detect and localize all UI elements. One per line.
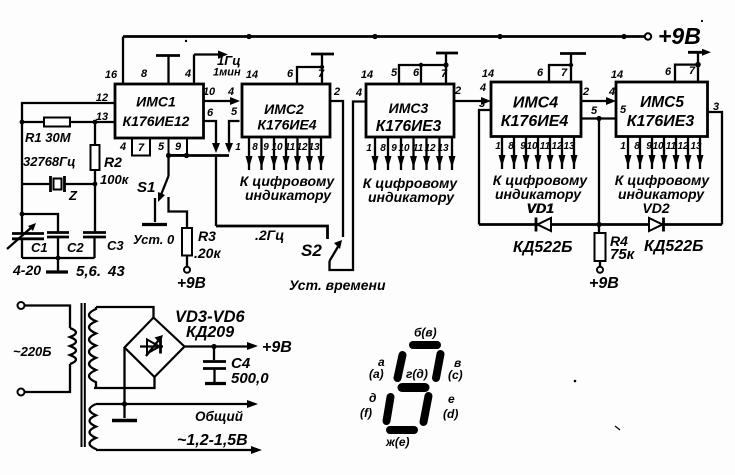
- svg-text:~1,2-1,5В: ~1,2-1,5В: [177, 432, 248, 449]
- svg-text:9: 9: [263, 142, 269, 153]
- svg-text:С3: С3: [107, 238, 124, 253]
- svg-text:500,0: 500,0: [231, 370, 269, 387]
- svg-text:+9В: +9В: [658, 23, 701, 49]
- svg-text:.2Гц: .2Гц: [255, 227, 284, 243]
- svg-text:К176ИЕ3: К176ИЕ3: [376, 118, 442, 135]
- svg-text:7: 7: [138, 142, 145, 154]
- svg-text:(d): (d): [443, 407, 458, 421]
- svg-text:VD2: VD2: [642, 200, 669, 216]
- svg-text:R3: R3: [198, 228, 216, 244]
- svg-text:12: 12: [96, 92, 108, 104]
- svg-text:г(д): г(д): [406, 367, 428, 381]
- svg-text:д: д: [369, 391, 376, 405]
- svg-text:9: 9: [391, 143, 397, 154]
- svg-text:5: 5: [620, 104, 627, 116]
- svg-text:1: 1: [620, 141, 626, 152]
- svg-text:8: 8: [380, 143, 386, 154]
- svg-text:К176ИЕ4: К176ИЕ4: [501, 113, 569, 130]
- svg-text:ИМС2: ИМС2: [264, 101, 304, 117]
- svg-text:13: 13: [96, 111, 108, 123]
- svg-text:4: 4: [355, 87, 362, 99]
- svg-text:14: 14: [246, 69, 258, 81]
- svg-text:R2: R2: [104, 154, 122, 170]
- svg-text:индикатору: индикатору: [368, 189, 455, 205]
- svg-text:14: 14: [611, 69, 623, 81]
- svg-text:К176ИЕ4: К176ИЕ4: [257, 117, 316, 133]
- svg-text:Уст. 0: Уст. 0: [133, 232, 175, 247]
- svg-text:е: е: [448, 392, 455, 406]
- svg-text:С1: С1: [31, 240, 48, 255]
- svg-text:1: 1: [366, 143, 372, 154]
- svg-text:10: 10: [652, 141, 664, 152]
- svg-text:10: 10: [526, 141, 538, 152]
- svg-text:4: 4: [119, 141, 126, 153]
- svg-text:ИМС1: ИМС1: [136, 94, 176, 110]
- svg-text:2: 2: [582, 86, 589, 98]
- svg-text:9: 9: [175, 141, 182, 153]
- svg-text:6: 6: [287, 68, 294, 80]
- svg-text:(а): (а): [369, 367, 384, 381]
- svg-text:4: 4: [608, 86, 615, 98]
- svg-text:2: 2: [333, 86, 340, 98]
- svg-text:ж(е): ж(е): [385, 435, 410, 449]
- svg-text:5: 5: [231, 106, 238, 118]
- svg-text:К176ИЕ3: К176ИЕ3: [627, 113, 695, 130]
- svg-text:С2: С2: [67, 240, 84, 255]
- svg-text:1мин: 1мин: [213, 67, 241, 79]
- svg-text:(f): (f): [360, 406, 372, 420]
- svg-text:8: 8: [252, 142, 258, 153]
- svg-text:7: 7: [441, 68, 448, 80]
- svg-text:К176ИЕ12: К176ИЕ12: [123, 113, 190, 129]
- svg-text:ИМС4: ИМС4: [513, 95, 558, 112]
- svg-text:индикатору: индикатору: [245, 187, 332, 203]
- svg-text:6: 6: [537, 67, 544, 79]
- svg-text:100к: 100к: [100, 172, 130, 187]
- svg-text:7: 7: [689, 65, 696, 77]
- svg-text:4: 4: [479, 82, 486, 94]
- svg-text:(с): (с): [448, 368, 463, 382]
- svg-text:2: 2: [454, 85, 461, 97]
- svg-text:+9В: +9В: [177, 275, 206, 292]
- svg-text:14: 14: [361, 69, 373, 81]
- svg-text:+9В: +9В: [589, 275, 619, 292]
- svg-text:Уст. времени: Уст. времени: [289, 277, 386, 293]
- svg-text:10: 10: [203, 86, 216, 98]
- svg-text:б(в): б(в): [414, 326, 437, 340]
- svg-text:7: 7: [318, 68, 325, 80]
- svg-text:4-20: 4-20: [12, 262, 41, 278]
- svg-text:R1 30М: R1 30М: [25, 130, 72, 145]
- svg-text:3: 3: [479, 98, 485, 110]
- svg-text:4: 4: [184, 68, 191, 80]
- svg-text:16: 16: [105, 69, 118, 81]
- svg-text:5,6.: 5,6.: [76, 263, 101, 280]
- svg-text:КД522Б: КД522Б: [513, 239, 572, 256]
- svg-text:~220Б: ~220Б: [13, 344, 52, 359]
- svg-text:3: 3: [713, 101, 719, 113]
- svg-text:5: 5: [391, 67, 398, 79]
- svg-text:VD1: VD1: [527, 200, 554, 216]
- svg-text:+9В: +9В: [262, 339, 292, 356]
- svg-text:6: 6: [207, 107, 214, 119]
- svg-text:5: 5: [591, 105, 598, 117]
- svg-text:Общий: Общий: [195, 409, 244, 424]
- svg-text:ИМС3: ИМС3: [389, 100, 429, 116]
- svg-text:32768Гц: 32768Гц: [23, 154, 76, 169]
- svg-text:43: 43: [107, 263, 125, 280]
- svg-text:Z: Z: [68, 188, 78, 203]
- svg-text:1: 1: [235, 142, 241, 153]
- svg-text:14: 14: [482, 68, 494, 80]
- svg-text:4: 4: [227, 86, 234, 98]
- svg-text:КД522Б: КД522Б: [644, 238, 703, 255]
- svg-text:ИМС5: ИМС5: [640, 94, 684, 111]
- svg-text:5: 5: [158, 141, 165, 153]
- svg-text:8: 8: [141, 68, 148, 80]
- svg-text:6: 6: [413, 67, 420, 79]
- svg-text:6: 6: [665, 66, 672, 78]
- svg-text:7: 7: [561, 67, 568, 79]
- svg-text:S1: S1: [137, 179, 155, 196]
- svg-text:.20к: .20к: [194, 245, 221, 261]
- svg-text:КД209: КД209: [186, 324, 234, 341]
- svg-text:1: 1: [495, 141, 501, 152]
- svg-text:75к: 75к: [610, 246, 636, 263]
- svg-text:S2: S2: [301, 241, 322, 260]
